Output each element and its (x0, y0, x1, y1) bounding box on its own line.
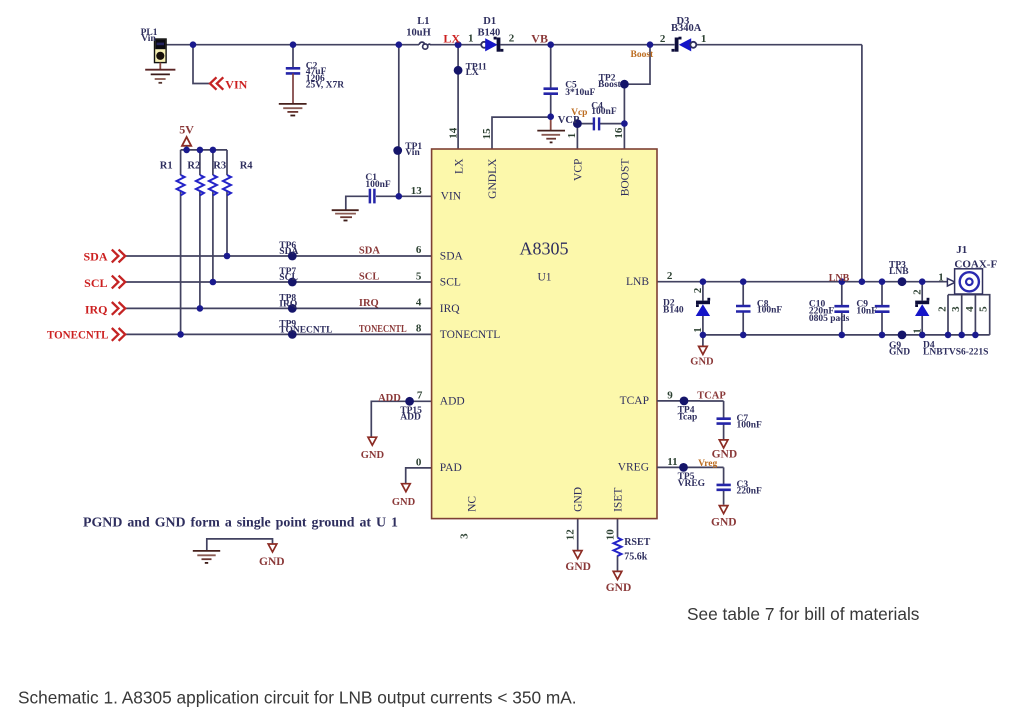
gnd arrow at ADD (368, 437, 377, 445)
svg-text:IRQ: IRQ (440, 303, 461, 315)
wire: BOOST vertical from TP2 to pin 16 (623, 84, 625, 149)
resistor RSET 75.6k (614, 538, 622, 556)
svg-text:LX: LX (453, 158, 465, 174)
svg-text:SDA: SDA (440, 250, 464, 262)
svg-text:2: 2 (667, 270, 673, 282)
wire: TP2 across to Boost riser (624, 45, 650, 84)
junction 5V rail c (210, 147, 217, 154)
svg-text:VREG: VREG (678, 479, 706, 489)
wire: LNB pin 2 row to coax (657, 281, 947, 283)
svg-text:15: 15 (481, 128, 493, 140)
svg-text:220nF: 220nF (737, 487, 763, 497)
wire: C9 leads (881, 282, 883, 306)
wire: LX vertical from top rail through TP11 to pin 14 (457, 45, 459, 149)
svg-text:A8305: A8305 (520, 239, 569, 259)
junction C4-BOOST node (621, 120, 628, 127)
svg-text:R3: R3 (213, 160, 226, 171)
svg-text:VB: VB (531, 31, 548, 45)
test point TP6 (288, 252, 297, 261)
svg-text:SCL: SCL (279, 273, 297, 283)
svg-text:LNBTVS6-221S: LNBTVS6-221S (923, 348, 988, 358)
junction gnd rail C10 (839, 332, 846, 339)
svg-text:1: 1 (566, 133, 578, 139)
svg-text:SDA: SDA (83, 250, 107, 264)
svg-text:B340A: B340A (671, 23, 702, 34)
chevron VIN input (210, 77, 223, 89)
junction node VB (547, 41, 554, 48)
svg-text:4: 4 (964, 306, 976, 312)
svg-text:VCP: VCP (572, 159, 584, 181)
junction gnd rail C9 (879, 332, 886, 339)
svg-text:Schematic 1. A8305 application: Schematic 1. A8305 application circuit f… (18, 688, 577, 708)
svg-text:Vin: Vin (141, 34, 156, 44)
svg-text:GND: GND (361, 450, 385, 461)
svg-text:IRQ: IRQ (359, 298, 379, 309)
diode D2 B140 (696, 298, 711, 316)
junction gnd rail J1 pin3 (958, 332, 965, 339)
junction 5V rail b (197, 147, 204, 154)
wire: top rail L1 to D1 (430, 44, 481, 46)
wire: C1 branch left of pin 13 (376, 195, 399, 197)
test point TP2 (620, 80, 629, 89)
svg-text:SDA: SDA (359, 246, 380, 257)
svg-text:GND: GND (259, 556, 285, 568)
test point TP11 (454, 66, 463, 75)
junction LNB-D4 (919, 278, 926, 285)
svg-text:ADD: ADD (400, 412, 421, 422)
svg-text:GND: GND (392, 497, 416, 508)
wire: D4 top lead (921, 282, 923, 301)
gnd arrow below D2 (699, 346, 708, 354)
capacitor C10 (834, 306, 849, 312)
svg-text:TONECNTL: TONECNTL (440, 329, 500, 341)
svg-text:100nF: 100nF (365, 180, 391, 190)
svg-text:1: 1 (938, 271, 944, 283)
gnd arrow below C7 (719, 440, 728, 448)
svg-text:D1: D1 (483, 16, 496, 27)
wire TCAP pin 9 (657, 400, 700, 402)
wire: coax arrow to center pin (955, 281, 966, 283)
svg-text:0805 pads: 0805 pads (809, 314, 850, 324)
wire: top rail D1 to D3 (VB net) (501, 44, 675, 46)
wire: R4 bottom lead to SDA (226, 191, 228, 256)
junction top rail C2 (290, 41, 297, 48)
svg-text:25V, X7R: 25V, X7R (306, 81, 344, 91)
svg-text:U1: U1 (538, 272, 552, 284)
svg-text:10uH: 10uH (406, 28, 431, 39)
svg-text:10: 10 (604, 529, 616, 541)
svg-text:LNB: LNB (626, 276, 649, 288)
wire: VB down through C5 to ground node (550, 45, 552, 88)
svg-text:SCL: SCL (440, 276, 461, 288)
svg-text:SCL: SCL (359, 271, 379, 282)
svg-text:2: 2 (911, 289, 923, 295)
svg-text:PAD: PAD (440, 462, 462, 474)
svg-text:ADD: ADD (378, 393, 401, 404)
svg-text:VIN: VIN (225, 78, 247, 92)
svg-text:7: 7 (417, 390, 423, 402)
chevron TONECNTL (112, 328, 125, 341)
svg-text:2: 2 (692, 287, 704, 293)
svg-text:TONECNTL: TONECNTL (279, 325, 332, 335)
svg-text:GND: GND (565, 561, 591, 573)
svg-text:3*10uF: 3*10uF (565, 88, 595, 98)
svg-text:LX: LX (443, 31, 460, 45)
svg-text:3: 3 (459, 533, 471, 539)
svg-text:GND: GND (573, 487, 585, 512)
wire: R1 top lead (180, 150, 182, 175)
svg-text:5: 5 (978, 306, 990, 312)
junction R3-SCL (210, 279, 217, 286)
svg-text:0: 0 (416, 456, 422, 468)
wire: D2 bottom lead (702, 316, 704, 335)
svg-text:GND: GND (606, 582, 632, 594)
junction gnd rail C8 (740, 332, 747, 339)
wire: GNDLX pin 15 up and right to ground node (492, 117, 551, 149)
wire: RSET to gnd arrow (617, 556, 619, 572)
junction gnd rail J1 pin4 (972, 332, 979, 339)
diode D1 B140 (481, 37, 503, 52)
wire: coax shield pins box (948, 295, 990, 335)
connector J1 COAX-F body (955, 269, 983, 294)
svg-text:LX: LX (466, 68, 479, 78)
junction node Boost riser (647, 41, 654, 48)
svg-text:TCAP: TCAP (620, 395, 649, 407)
chevron IRQ (112, 302, 125, 315)
junction GNDLX ground node (547, 113, 554, 120)
test point TP1 (393, 146, 402, 155)
ground symbol below C1 (332, 210, 359, 220)
test point TP5 (679, 463, 688, 472)
junction node LX (455, 41, 462, 48)
svg-text:4: 4 (416, 296, 422, 308)
svg-text:13: 13 (411, 185, 423, 197)
wire: R3 top lead (212, 150, 214, 175)
svg-text:11: 11 (667, 456, 677, 468)
svg-text:BOOST: BOOST (619, 159, 631, 197)
svg-text:9: 9 (667, 389, 673, 401)
junction gnd rail J1 pin2 (945, 332, 952, 339)
svg-text:Boost: Boost (598, 80, 622, 90)
wire: PGND note ground link (207, 539, 273, 551)
gnd arrow PGND note (268, 544, 277, 552)
svg-text:ISET: ISET (612, 488, 624, 512)
junction LNB-C10 (839, 278, 846, 285)
red off-page labels (47, 31, 460, 341)
junction R2-IRQ (197, 305, 204, 312)
svg-text:VIN: VIN (441, 191, 462, 203)
wire: SCL row (126, 281, 432, 283)
svg-text:5: 5 (416, 270, 422, 282)
junction gnd rail D2 (700, 332, 707, 339)
connector J1 coax input arrow pin 1 (947, 278, 955, 286)
svg-text:VREG: VREG (618, 462, 649, 474)
svg-text:100nF: 100nF (591, 107, 617, 117)
svg-text:L1: L1 (417, 16, 429, 27)
svg-text:100nF: 100nF (737, 421, 763, 431)
wire: C4 right side to BOOST vertical (600, 123, 625, 125)
wire: C2 branch from top rail (292, 45, 294, 67)
wire: pin13 VIN into chip (399, 195, 432, 197)
svg-text:Vin: Vin (405, 148, 420, 158)
svg-text:Boost: Boost (631, 50, 655, 60)
orange net aliases (571, 50, 717, 469)
power symbol 5V (182, 137, 191, 150)
wire: TONECNTL row (126, 333, 432, 335)
svg-text:75.6k: 75.6k (624, 552, 648, 563)
diode D4 TVS (915, 298, 929, 316)
test point TP15 (405, 397, 414, 406)
gnd arrow below RSET (613, 571, 622, 579)
capacitor C3 (700, 467, 731, 504)
test point TP4 (680, 397, 689, 406)
test point TP7 (288, 278, 297, 287)
wire: 5V rail over resistors (181, 149, 227, 151)
svg-text:SCL: SCL (84, 276, 107, 290)
svg-text:RSET: RSET (624, 537, 650, 548)
test point TP9 (288, 330, 297, 339)
wire: TP1/VIN branch down to pin 13 (398, 45, 400, 197)
capacitor C5 (544, 89, 559, 94)
wire: vertical drop from D3 output to LNB line (861, 45, 863, 282)
svg-text:B140: B140 (478, 28, 501, 39)
wire: VCP pin up to TP and right to C4 (577, 124, 593, 149)
ground symbol at GNDLX/C5 node (537, 117, 565, 143)
wire: IRQ row (126, 307, 432, 309)
resistor R1 (177, 175, 185, 195)
svg-text:NC: NC (466, 496, 478, 512)
svg-text:B140: B140 (663, 306, 684, 316)
svg-text:LNB: LNB (829, 273, 850, 284)
svg-text:1: 1 (468, 33, 474, 45)
svg-text:R2: R2 (187, 160, 200, 171)
svg-text:See table 7 for bill of materi: See table 7 for bill of materials (687, 604, 920, 624)
resistor R4 (223, 175, 231, 195)
wire: GND pin 12 stub (577, 519, 579, 551)
capacitor C4 (594, 117, 599, 130)
svg-text:3: 3 (950, 306, 962, 312)
svg-text:IRQ: IRQ (85, 302, 108, 316)
svg-text:GND: GND (711, 517, 737, 529)
chevron SCL (112, 276, 125, 289)
diode D3 B340A (672, 37, 697, 52)
svg-text:10nF: 10nF (856, 307, 877, 317)
wire: R3 bottom lead to SCL (212, 191, 214, 282)
ground symbol below C2 (279, 104, 307, 116)
DOTS_START (177, 41, 978, 338)
junction LNB-D2 (700, 278, 707, 285)
connector PL1 body (155, 39, 167, 63)
inductor L1 (419, 42, 430, 49)
wire: R2 top lead (199, 150, 201, 175)
capacitor C1 (370, 189, 375, 204)
wire: ADD pin 7 to gnd arrow (371, 401, 431, 437)
junction R1-TONECNTL (177, 331, 184, 338)
wire: VIN stub from junction down-left chevron (193, 45, 210, 84)
svg-text:100nF: 100nF (757, 306, 783, 316)
resistor R2 (196, 175, 204, 195)
ground symbol at PL1 (145, 63, 175, 83)
svg-text:GNDLX: GNDLX (487, 158, 499, 199)
wire: R4 top lead (226, 150, 228, 175)
capacitor C2 (286, 68, 300, 103)
svg-text:1: 1 (911, 328, 923, 334)
junction top rail TP1 branch (396, 41, 403, 48)
wire: SDA row (126, 255, 432, 257)
wire: ISET pin 10 to RSET (617, 519, 619, 538)
junction R4-SDA (224, 253, 231, 260)
svg-text:TONECNTL: TONECNTL (47, 328, 109, 342)
svg-text:5V: 5V (179, 123, 194, 137)
svg-text:Vreg: Vreg (698, 459, 717, 469)
wire: C10 leads (841, 282, 843, 306)
test point G9 (898, 331, 907, 340)
wire: R2 bottom lead to IRQ (199, 191, 201, 308)
svg-text:R4: R4 (240, 160, 254, 171)
op-amp U1 A8305 chip body (432, 149, 657, 519)
wire: top rail D3 to right corner (697, 44, 862, 46)
gnd arrow below C3 (719, 506, 728, 514)
wire: D2 top lead (702, 282, 704, 301)
wire: D4 bottom lead (921, 316, 923, 335)
svg-text:8: 8 (416, 323, 422, 335)
ground symbol PGND note (193, 551, 220, 563)
svg-text:R1: R1 (160, 160, 173, 171)
capacitor C9 (875, 306, 890, 312)
junction LNB-C8 (740, 278, 747, 285)
svg-text:16: 16 (613, 127, 625, 139)
svg-text:GND: GND (690, 357, 714, 368)
svg-text:2: 2 (660, 33, 666, 45)
resistor R3 (209, 175, 217, 195)
wire: R1 bottom lead to TONECNTL (180, 191, 182, 334)
svg-text:J1: J1 (956, 244, 967, 256)
svg-text:IRQ: IRQ (279, 299, 297, 309)
svg-text:6: 6 (416, 244, 422, 256)
svg-text:GND: GND (889, 347, 910, 357)
wire: LNB ground return rail (703, 334, 990, 336)
svg-text:TCAP: TCAP (697, 391, 726, 402)
TEXT_START (83, 16, 997, 562)
svg-text:LNB: LNB (889, 267, 909, 277)
wire: top rail PL1 to L1 (166, 44, 419, 46)
junction pin13 node (396, 193, 403, 200)
svg-text:ADD: ADD (440, 396, 465, 408)
svg-text:PGND and GND form a single poi: PGND and GND form a single point ground … (83, 515, 398, 530)
wire: D2 stub to gnd arrow (702, 335, 704, 346)
WIRES_START (126, 45, 990, 571)
junction LNB-D3 riser (859, 278, 866, 285)
chevron SDA (112, 250, 125, 263)
chip internal labels (440, 158, 650, 512)
svg-text:TONECNTL: TONECNTL (359, 324, 407, 335)
junction 5V rail a (183, 147, 190, 154)
gnd arrow at PAD (402, 484, 411, 492)
capacitor C7 (700, 401, 731, 439)
svg-text:Tcap: Tcap (678, 413, 698, 423)
wire: PAD pin 0 to gnd arrow (406, 468, 432, 483)
svg-text:14: 14 (447, 127, 459, 139)
capacitor C8 (736, 306, 751, 312)
svg-text:1: 1 (701, 33, 707, 45)
junction LNB-C9 (879, 278, 886, 285)
svg-text:2: 2 (509, 33, 515, 45)
maroon net labels (179, 31, 849, 594)
svg-text:1: 1 (692, 327, 704, 333)
gnd arrow at pin 12 (573, 551, 582, 559)
test point TP3 (898, 277, 907, 286)
test point TP8 (288, 304, 297, 313)
svg-text:SDA: SDA (279, 247, 298, 257)
junction top rail VIN tap (190, 41, 197, 48)
junction gnd rail D4 (919, 332, 926, 339)
wire: C8 leads (742, 282, 744, 305)
svg-text:Vcp: Vcp (571, 108, 587, 118)
test point VCP (573, 119, 582, 128)
wire VREG pin 11 (657, 466, 700, 468)
svg-text:12: 12 (565, 529, 577, 541)
svg-text:COAX-F: COAX-F (954, 258, 997, 270)
svg-text:2: 2 (937, 306, 949, 312)
